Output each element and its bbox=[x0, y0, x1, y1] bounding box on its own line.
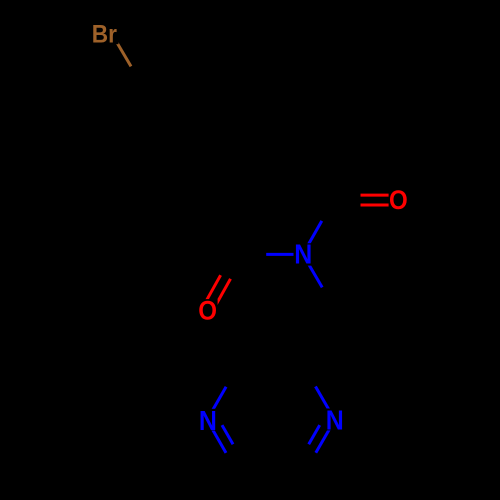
double bond C3=O2 red half line a bbox=[203, 275, 221, 307]
svg-text:O: O bbox=[198, 296, 217, 325]
pyrazine double bond N13=C14 inner blue half bbox=[309, 425, 320, 444]
double bond C1=O1 red half line a bbox=[361, 194, 399, 197]
label mask O2 bbox=[198, 299, 218, 320]
svg-text:O: O bbox=[389, 186, 408, 215]
label mask O1 bbox=[389, 188, 408, 210]
label mask N2 bbox=[294, 243, 312, 265]
pyrazine bond C12-N13 blue half bbox=[316, 387, 335, 420]
svg-text:N: N bbox=[326, 404, 344, 436]
pyrazine bond C9-N10 blue half bbox=[207, 387, 226, 420]
bond N2-C3 blue half bbox=[266, 253, 303, 256]
label mask N13 bbox=[325, 409, 343, 431]
label mask N10 bbox=[199, 409, 216, 431]
double bond C3=O2 red half line b bbox=[212, 279, 231, 313]
pyrazine double bond N10=C11 inner blue half bbox=[222, 425, 233, 444]
label mask Br bbox=[92, 24, 119, 44]
svg-text:N: N bbox=[294, 238, 312, 270]
svg-text:Br: Br bbox=[92, 21, 117, 49]
bond Br-C6 brown half bbox=[111, 33, 131, 67]
double bond C1=O1 red half line b bbox=[361, 204, 399, 207]
pyrazine double bond N13=C14 main blue half bbox=[316, 420, 335, 453]
bond N2-C1 blue half bbox=[303, 221, 322, 254]
pyrazine double bond N10=C11 main blue half bbox=[207, 420, 226, 453]
svg-text:N: N bbox=[199, 405, 217, 437]
bond N2-CH2 blue half bbox=[303, 254, 322, 287]
